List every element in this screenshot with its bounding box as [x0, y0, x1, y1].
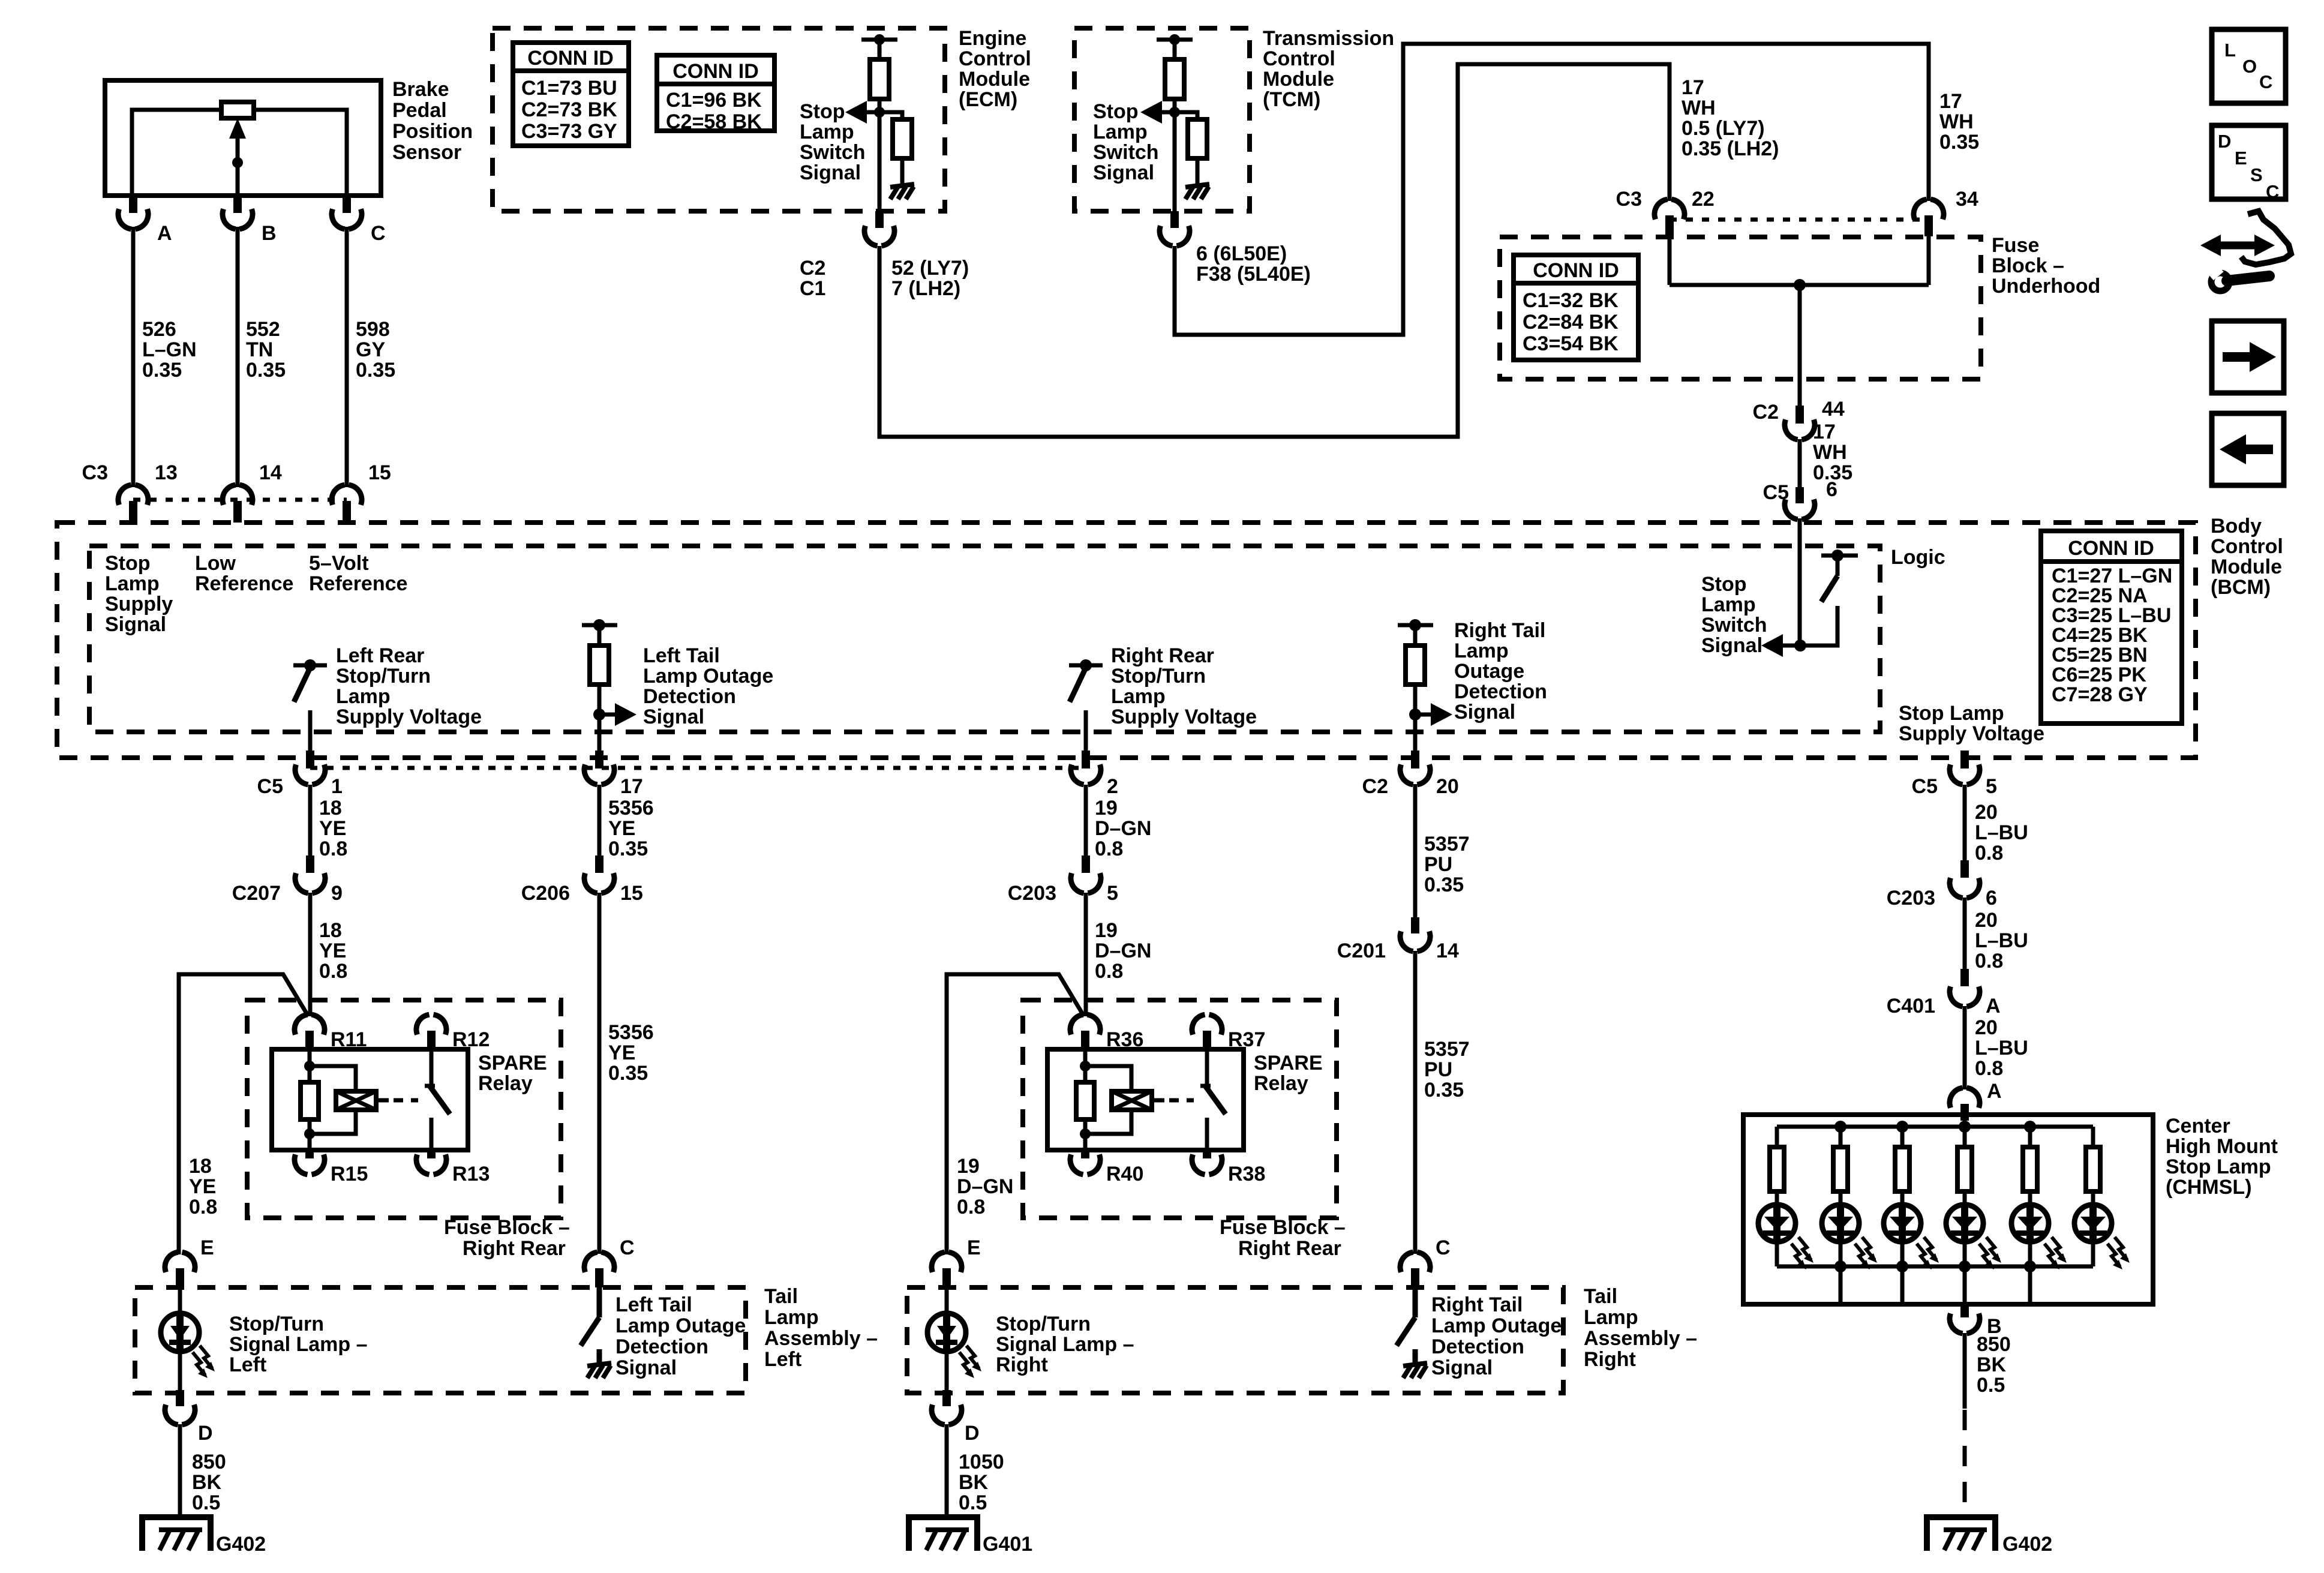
- wire C206 to lamp C: [597, 893, 602, 1254]
- connector R36: [1070, 1014, 1083, 1034]
- ECM conn-id table 1: [513, 43, 629, 146]
- svg-text:Block –: Block –: [1992, 254, 2064, 277]
- svg-text:C3=73 GY: C3=73 GY: [521, 120, 617, 143]
- svg-text:D: D: [965, 1422, 980, 1445]
- CHMSL box: [1743, 1115, 2153, 1304]
- BCM output stub 17: [595, 751, 603, 769]
- svg-text:WH: WH: [1682, 97, 1716, 119]
- svg-text:(CHMSL): (CHMSL): [2166, 1176, 2252, 1199]
- fuse conn-id table: [1514, 255, 1638, 360]
- CHMSL branch 2 lower wire: [1839, 1242, 1843, 1266]
- TCM arrow stop lamp switch signal: [1162, 110, 1175, 115]
- svg-text:Lamp: Lamp: [800, 121, 854, 143]
- BCM output connector 17: [584, 764, 597, 784]
- CHMSL top bus dot at 3171: [1896, 1121, 1908, 1133]
- svg-text:C207: C207: [232, 882, 281, 905]
- CHMSL LED 2 radiation arrows: [1862, 1237, 1875, 1260]
- LOC icon: [2212, 29, 2286, 103]
- svg-text:C201: C201: [1337, 939, 1386, 962]
- svg-text:9: 9: [331, 882, 343, 905]
- svg-text:CONN ID: CONN ID: [1533, 259, 1619, 282]
- svg-text:Lamp: Lamp: [1093, 121, 1148, 143]
- svg-text:Tail: Tail: [764, 1285, 798, 1308]
- svg-text:C2: C2: [1362, 775, 1388, 798]
- svg-text:0.35: 0.35: [608, 1062, 648, 1085]
- svg-text:C206: C206: [521, 882, 570, 905]
- svg-text:Detection: Detection: [643, 685, 736, 708]
- svg-text:0.5: 0.5: [1977, 1374, 2005, 1397]
- svg-text:SPARE: SPARE: [1254, 1052, 1323, 1074]
- svg-text:Right Rear: Right Rear: [463, 1237, 566, 1260]
- connector C5-6: [1795, 487, 1804, 503]
- svg-text:Engine: Engine: [959, 27, 1026, 50]
- sensor pin C stub: [343, 196, 351, 213]
- svg-text:Detection: Detection: [615, 1335, 708, 1358]
- svg-text:0.35: 0.35: [246, 359, 286, 382]
- fuse connector C2-44: [1785, 419, 1798, 439]
- CHMSL sub-bus wire at 3384: [2028, 1266, 2032, 1304]
- left rear stop/turn switch: [293, 664, 327, 668]
- connector C401-A: [1960, 969, 1969, 986]
- svg-text:R40: R40: [1106, 1163, 1143, 1185]
- CHMSL sub-bus wire at 3275: [1963, 1266, 1967, 1304]
- svg-text:0.8: 0.8: [1975, 842, 2003, 864]
- wire TCM to fuse pin 34: [1175, 44, 1929, 335]
- ECM supply junction dot: [874, 34, 885, 45]
- left outage ground: [587, 1363, 611, 1366]
- left outage switch lower lead: [597, 1349, 602, 1363]
- svg-text:Supply Voltage: Supply Voltage: [1111, 706, 1257, 728]
- svg-text:19: 19: [957, 1155, 980, 1178]
- svg-text:Reference: Reference: [309, 572, 407, 595]
- svg-text:14: 14: [259, 461, 282, 484]
- svg-text:Signal Lamp –: Signal Lamp –: [229, 1333, 368, 1356]
- relay coil left leg (R36): [1083, 1049, 1088, 1082]
- BCM output stub 1: [306, 751, 314, 769]
- BCM output connector 20: [1400, 764, 1413, 784]
- svg-text:O: O: [2242, 56, 2257, 77]
- right outage switch blade: [1397, 1317, 1415, 1346]
- svg-text:L–BU: L–BU: [1975, 821, 2028, 844]
- TCM 2nd resistor: [1188, 119, 1207, 158]
- svg-text:C7=28 GY: C7=28 GY: [2052, 683, 2148, 706]
- svg-text:Left Rear: Left Rear: [336, 644, 424, 667]
- svg-text:Brake: Brake: [392, 78, 449, 101]
- svg-text:Tail: Tail: [1584, 1285, 1617, 1308]
- svg-text:17: 17: [1682, 76, 1704, 99]
- left outage switch blade: [581, 1317, 599, 1346]
- logic stop lamp switch: [1821, 554, 1858, 558]
- connector C (right lamp): [1400, 1252, 1413, 1272]
- svg-text:Underhood: Underhood: [1992, 275, 2100, 298]
- svg-text:C5: C5: [257, 775, 283, 798]
- wire 17 WH to C5: [1798, 439, 1802, 489]
- ECM junction dot: [874, 107, 885, 118]
- svg-text:0.5 (LY7): 0.5 (LY7): [1682, 117, 1765, 140]
- lamp radiation arrows (left): [200, 1346, 212, 1368]
- svg-text:L–BU: L–BU: [1975, 1037, 2028, 1059]
- TCM wire to resistor: [1173, 40, 1177, 59]
- svg-text:Stop: Stop: [1701, 573, 1747, 596]
- svg-text:CONN ID: CONN ID: [2068, 537, 2154, 560]
- svg-text:0.8: 0.8: [1095, 837, 1123, 860]
- wire 850 BK (left): [178, 1424, 182, 1517]
- svg-text:Control: Control: [1263, 47, 1335, 70]
- potentiometer element: [221, 102, 254, 118]
- wire C201 to lamp C: [1413, 951, 1418, 1254]
- relay coil resistor (R11): [301, 1082, 319, 1119]
- CHMSL branch 1 lower wire: [1775, 1242, 1779, 1266]
- right lamp pin stub: [942, 1390, 951, 1406]
- svg-text:BK: BK: [959, 1471, 989, 1494]
- CHMSL bottom bus dot at 3171: [1896, 1260, 1908, 1272]
- CHMSL top bus dot at 3384: [2024, 1121, 2036, 1133]
- ground G402 (left): [142, 1517, 211, 1551]
- svg-text:C1=73 BU: C1=73 BU: [521, 77, 617, 100]
- svg-text:6 (6L50E): 6 (6L50E): [1196, 242, 1287, 265]
- svg-text:20: 20: [1975, 801, 1998, 824]
- svg-text:Reference: Reference: [195, 572, 293, 595]
- svg-text:598: 598: [356, 318, 390, 341]
- connector C3-15: [332, 485, 345, 505]
- svg-text:C2=73 BK: C2=73 BK: [521, 98, 617, 121]
- svg-text:CONN ID: CONN ID: [672, 60, 759, 83]
- connector D (right): [932, 1404, 945, 1424]
- ECM wire resistor to junction: [878, 99, 882, 115]
- svg-text:C203: C203: [1008, 882, 1056, 905]
- svg-text:Fuse Block –: Fuse Block –: [444, 1216, 570, 1239]
- connector E (right): [932, 1252, 945, 1272]
- svg-text:Stop Lamp: Stop Lamp: [1899, 702, 2004, 725]
- svg-text:Stop/Turn: Stop/Turn: [1111, 665, 1206, 688]
- svg-text:PU: PU: [1424, 1058, 1452, 1081]
- relay coil resistor (R36): [1076, 1082, 1094, 1119]
- svg-text:20: 20: [1436, 775, 1459, 798]
- ECM internal ground: [890, 184, 914, 187]
- svg-text:18: 18: [189, 1155, 212, 1178]
- connector R15: [295, 1154, 308, 1174]
- CHMSL branch 5 resistor: [2028, 1127, 2032, 1147]
- TCM supply junction dot: [1169, 34, 1180, 45]
- svg-text:15: 15: [368, 461, 391, 484]
- svg-text:Relay: Relay: [478, 1072, 533, 1095]
- svg-text:Supply: Supply: [105, 593, 173, 616]
- BCM output connector 5: [1950, 764, 1963, 784]
- svg-text:0.8: 0.8: [189, 1196, 217, 1218]
- svg-text:0.35: 0.35: [356, 359, 395, 382]
- connector R40: [1070, 1154, 1083, 1174]
- svg-text:17: 17: [1939, 90, 1962, 113]
- svg-text:18: 18: [319, 797, 342, 819]
- CHMSL branch 6 lower wire: [2091, 1242, 2095, 1266]
- connector C207-9: [306, 855, 314, 873]
- svg-text:L–GN: L–GN: [142, 338, 197, 361]
- right lamp assembly dashed box: [907, 1287, 1563, 1393]
- left lamp assembly dashed box: [135, 1287, 746, 1393]
- svg-text:Right Rear: Right Rear: [1111, 644, 1214, 667]
- svg-text:0.8: 0.8: [957, 1196, 985, 1218]
- svg-text:Supply Voltage: Supply Voltage: [336, 706, 482, 728]
- svg-text:Outage: Outage: [1454, 660, 1524, 683]
- tie line fuse pins: [1670, 218, 1929, 222]
- CHMSL LED 4 radiation arrows: [1986, 1237, 1999, 1260]
- svg-text:C1: C1: [800, 277, 825, 300]
- tie line BCM outputs: [310, 766, 1086, 770]
- ECM pullup resistor: [870, 59, 889, 99]
- svg-text:Sensor: Sensor: [392, 141, 461, 164]
- svg-text:Signal: Signal: [800, 161, 861, 184]
- connector R12: [416, 1014, 430, 1034]
- svg-text:C2=58 BK: C2=58 BK: [666, 110, 762, 133]
- svg-text:Right Tail: Right Tail: [1454, 619, 1545, 642]
- sensor pin B stub: [233, 196, 242, 213]
- svg-text:Lamp: Lamp: [1454, 640, 1509, 662]
- stop/turn signal lamp right: [927, 1313, 966, 1352]
- svg-text:C203: C203: [1887, 887, 1935, 909]
- svg-text:5–Volt: 5–Volt: [309, 552, 369, 575]
- svg-text:YE: YE: [608, 817, 635, 840]
- right stop/turn lamp wire: [945, 1287, 949, 1314]
- svg-text:Stop Lamp: Stop Lamp: [2166, 1155, 2271, 1178]
- relay solenoid box (R11): [336, 1091, 376, 1110]
- svg-text:0.35 (LH2): 0.35 (LH2): [1682, 137, 1779, 160]
- svg-text:Signal Lamp –: Signal Lamp –: [996, 1333, 1134, 1356]
- svg-text:(ECM): (ECM): [959, 88, 1017, 111]
- connector E (left): [165, 1252, 178, 1272]
- svg-text:Left Tail: Left Tail: [615, 1293, 692, 1316]
- svg-text:Signal: Signal: [1454, 701, 1515, 724]
- svg-text:17: 17: [620, 775, 643, 798]
- ECM pin stub: [875, 211, 884, 228]
- CHMSL LED 2: [1822, 1205, 1859, 1242]
- potentiometer wiper arrow: [236, 137, 240, 196]
- ECM arrow stop lamp switch signal: [867, 110, 879, 115]
- CHMSL input wire: [1963, 1115, 1967, 1127]
- svg-text:Switch: Switch: [800, 141, 866, 164]
- dashed wire to G402: [1963, 1410, 1967, 1513]
- svg-text:Switch: Switch: [1093, 141, 1159, 164]
- svg-text:Lamp: Lamp: [1584, 1306, 1638, 1329]
- svg-text:C2: C2: [800, 257, 825, 280]
- svg-text:0.35: 0.35: [1424, 873, 1464, 896]
- wire conn17 to C206: [597, 785, 602, 857]
- svg-text:GY: GY: [356, 338, 385, 361]
- svg-text:Right: Right: [1584, 1348, 1636, 1371]
- ground G401: [909, 1517, 977, 1551]
- relay actuation dashed link (R36): [1169, 1098, 1194, 1103]
- connector C3-14: [223, 485, 236, 505]
- BCM conn-id table: [2041, 531, 2182, 724]
- wire 598 GY: [345, 227, 349, 487]
- logic arrow stop lamp switch signal: [1783, 644, 1800, 648]
- svg-text:552: 552: [246, 318, 280, 341]
- BCM output connector 1: [295, 764, 308, 784]
- svg-text:SPARE: SPARE: [478, 1052, 547, 1074]
- svg-text:52 (LY7): 52 (LY7): [891, 257, 969, 280]
- left tail outage resistor branch: [582, 623, 617, 628]
- wire 1050 BK (right): [945, 1424, 949, 1517]
- svg-text:Right: Right: [996, 1353, 1048, 1376]
- svg-text:C1=96 BK: C1=96 BK: [666, 89, 762, 112]
- TCM junction dot: [1169, 107, 1180, 118]
- svg-text:7 (LH2): 7 (LH2): [891, 277, 960, 300]
- relay switch contact (R37): [1205, 1049, 1209, 1086]
- svg-text:20: 20: [1975, 1016, 1998, 1039]
- svg-text:Stop/Turn: Stop/Turn: [229, 1313, 324, 1335]
- svg-text:E: E: [2235, 148, 2247, 169]
- right outage switch lower lead: [1413, 1349, 1418, 1363]
- relay junction dots (R36): [1080, 1061, 1091, 1071]
- connector B (CHMSL): [1950, 1313, 1963, 1333]
- svg-text:5: 5: [1986, 775, 1997, 798]
- svg-text:13: 13: [155, 461, 178, 484]
- svg-text:G402: G402: [2002, 1533, 2052, 1556]
- right outage switch wire: [1413, 1287, 1418, 1317]
- svg-text:20: 20: [1975, 909, 1998, 932]
- svg-text:6: 6: [1986, 887, 1997, 909]
- BCM output stub 2: [1082, 751, 1090, 769]
- connector C203-5: [1082, 855, 1090, 873]
- svg-text:Lamp Outage: Lamp Outage: [1431, 1314, 1562, 1337]
- svg-text:Module: Module: [1263, 68, 1334, 91]
- ECM dashed box: [493, 28, 945, 211]
- svg-text:Module: Module: [2211, 556, 2282, 578]
- svg-text:0.5: 0.5: [959, 1491, 987, 1514]
- svg-text:C3: C3: [82, 461, 108, 484]
- brake pedal position sensor box: [105, 80, 381, 196]
- CHMSL LED 6: [2074, 1205, 2112, 1242]
- CHMSL branch 1 resistor: [1775, 1127, 1779, 1147]
- svg-text:Transmission: Transmission: [1263, 27, 1394, 50]
- ECM supply bar: [861, 38, 897, 42]
- wire ECM to fuse pin 22: [879, 64, 1670, 437]
- connector C3-13: [118, 485, 131, 505]
- svg-text:L: L: [2224, 40, 2236, 61]
- CHMSL branch 3 resistor: [1900, 1127, 1905, 1147]
- svg-text:5356: 5356: [608, 797, 654, 819]
- CHMSL branch 4 resistor: [1963, 1127, 1967, 1147]
- relay solenoid lead (R11): [376, 1098, 389, 1103]
- relay coil left leg (R11): [308, 1049, 312, 1082]
- svg-text:Fuse Block –: Fuse Block –: [1220, 1216, 1346, 1239]
- fuse internal wires: [1668, 236, 1672, 285]
- svg-text:(BCM): (BCM): [2211, 576, 2271, 599]
- svg-text:D–GN: D–GN: [957, 1175, 1013, 1198]
- svg-text:Detection: Detection: [1454, 680, 1547, 703]
- svg-text:YE: YE: [319, 817, 346, 840]
- svg-text:Signal: Signal: [1701, 634, 1762, 657]
- connector R38: [1192, 1154, 1205, 1174]
- svg-text:R38: R38: [1228, 1163, 1265, 1185]
- svg-text:44: 44: [1822, 398, 1845, 421]
- svg-text:Stop: Stop: [800, 100, 845, 123]
- svg-text:Stop/Turn: Stop/Turn: [336, 665, 431, 688]
- svg-text:0.8: 0.8: [1975, 950, 2003, 972]
- svg-text:G402: G402: [216, 1533, 266, 1556]
- wire C203 to R36: [1084, 893, 1088, 1016]
- svg-text:C: C: [1436, 1236, 1451, 1259]
- svg-text:TN: TN: [246, 338, 273, 361]
- svg-text:C: C: [371, 222, 386, 245]
- svg-text:A: A: [1986, 995, 2001, 1017]
- forward arrow icon: [2212, 321, 2284, 393]
- relay coil parallel loop (R11): [310, 1066, 356, 1091]
- wire C207 to R11: [308, 893, 313, 1016]
- CHMSL branch 2 resistor: [1839, 1127, 1843, 1147]
- TCM dashed box: [1074, 28, 1250, 211]
- svg-text:Control: Control: [2211, 535, 2283, 558]
- wire conn2 to C203: [1084, 785, 1088, 857]
- svg-text:34: 34: [1956, 188, 1978, 211]
- connector R37: [1192, 1014, 1205, 1034]
- svg-text:0.8: 0.8: [319, 960, 347, 983]
- svg-text:Lamp: Lamp: [105, 572, 160, 595]
- svg-text:526: 526: [142, 318, 176, 341]
- svg-text:L–BU: L–BU: [1975, 929, 2028, 952]
- svg-text:C: C: [2266, 181, 2279, 202]
- fuse output pin stub: [1795, 406, 1804, 424]
- branch wire to right lamp: [947, 974, 1084, 1254]
- left outage arrow: [599, 713, 615, 717]
- svg-text:Control: Control: [959, 47, 1031, 70]
- TCM wire resistor to junction: [1173, 99, 1177, 115]
- TCM pullup resistor: [1165, 59, 1184, 99]
- connector pin C: [332, 209, 345, 229]
- CHMSL LED 4: [1946, 1205, 1983, 1242]
- svg-text:Assembly –: Assembly –: [1584, 1327, 1697, 1350]
- svg-text:Signal: Signal: [615, 1356, 677, 1379]
- relay coil parallel loop (R36): [1085, 1066, 1131, 1091]
- svg-text:C: C: [2259, 71, 2272, 92]
- connector pin B: [223, 209, 236, 229]
- CHMSL branch 4 lower wire: [1963, 1242, 1967, 1266]
- svg-text:Body: Body: [2211, 515, 2262, 538]
- TCM branch to 2nd resistor: [1175, 112, 1197, 119]
- svg-text:17: 17: [1813, 421, 1836, 443]
- svg-text:WH: WH: [1939, 110, 1974, 133]
- svg-text:C: C: [620, 1236, 635, 1259]
- CHMSL LED 1: [1758, 1205, 1795, 1242]
- BCM logic inner dashed box: [89, 546, 1880, 732]
- wire C5-1 to C207: [308, 785, 313, 857]
- svg-text:Right Tail: Right Tail: [1431, 1293, 1523, 1316]
- BCM output stub 5: [1960, 751, 1969, 769]
- svg-text:C5: C5: [1763, 481, 1789, 504]
- svg-text:850: 850: [1977, 1333, 2011, 1356]
- svg-text:Supply Voltage: Supply Voltage: [1899, 722, 2044, 745]
- svg-text:Lamp: Lamp: [1701, 593, 1756, 616]
- svg-text:Signal: Signal: [643, 706, 704, 728]
- svg-text:YE: YE: [319, 939, 346, 962]
- CHMSL sub-bus wire at 3068: [1839, 1266, 1843, 1304]
- svg-text:WH: WH: [1813, 441, 1847, 464]
- svg-text:0.35: 0.35: [1939, 131, 1979, 154]
- svg-text:C401: C401: [1887, 995, 1935, 1017]
- BCM outer dashed box: [57, 523, 2196, 758]
- svg-text:22: 22: [1692, 188, 1715, 211]
- connector C (left lamp): [584, 1252, 597, 1272]
- ECM connector C2/C1: [864, 226, 878, 245]
- svg-text:High Mount: High Mount: [2166, 1135, 2278, 1158]
- svg-text:Signal: Signal: [1431, 1356, 1493, 1379]
- svg-text:BK: BK: [192, 1471, 222, 1494]
- svg-text:Low: Low: [195, 552, 236, 575]
- svg-text:18: 18: [319, 919, 342, 942]
- svg-text:Detection: Detection: [1431, 1335, 1524, 1358]
- svg-text:5357: 5357: [1424, 1038, 1470, 1061]
- svg-text:C5: C5: [1912, 775, 1938, 798]
- svg-text:C3: C3: [1616, 188, 1642, 211]
